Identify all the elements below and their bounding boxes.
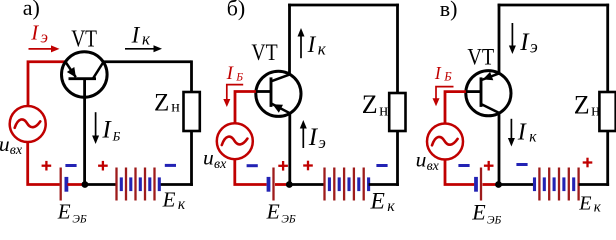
svg-text:вх: вх — [214, 157, 227, 172]
transistor VT3 base lead — [466, 90, 481, 93]
arrow I_E (red, right) — [29, 48, 54, 50]
svg-text:VT: VT — [251, 40, 277, 65]
svg-text:Б: Б — [235, 71, 243, 83]
plus sign E_K (a) — [98, 165, 108, 167]
plus sign E_EB (v) — [484, 165, 494, 167]
svg-text:Б: Б — [443, 70, 452, 84]
svg-text:н: н — [591, 101, 600, 120]
svg-text:u: u — [203, 146, 214, 170]
wire: Zn to bottom rail — [190, 131, 193, 186]
svg-text:вх: вх — [10, 143, 23, 158]
wire: top rail (v) — [498, 4, 609, 7]
svg-text:к: к — [529, 128, 537, 145]
battery E_EB long electrode (b) — [272, 168, 274, 201]
battery E_K cells (v) — [533, 177, 536, 191]
svg-text:к: к — [594, 200, 602, 216]
current label I_E up arrow (b) — [302, 127, 304, 149]
wire: right side down (v) — [606, 4, 609, 92]
plus sign E_EB — [42, 165, 52, 167]
wire: collector up (b) — [288, 4, 291, 75]
load Z_n box (a) — [184, 92, 200, 131]
wire: AC to rail (red, b) — [235, 159, 267, 185]
minus sign E_EB (b) — [247, 164, 258, 167]
svg-text:н: н — [171, 99, 180, 116]
svg-text:u: u — [416, 148, 427, 172]
current label I_K up arrow (b) — [300, 35, 302, 59]
minus sign E_EB — [65, 164, 76, 167]
wire: Zn to rail (v) — [606, 131, 609, 186]
wire: rail node to E_K (black, v) — [499, 183, 535, 186]
svg-text:I: I — [307, 32, 317, 57]
svg-text:I: I — [131, 23, 141, 48]
svg-text:Z: Z — [362, 90, 378, 119]
wire: rail right (black, b) — [369, 183, 399, 186]
svg-text:VT: VT — [71, 27, 97, 53]
wire: rail node to E_K (black) — [85, 183, 117, 186]
wire: base input (red, b) — [235, 92, 256, 125]
wire: rail E_EB to node (red, b) — [275, 183, 289, 186]
AC source G1 u_vx — [10, 106, 46, 142]
svg-text:к: к — [387, 198, 395, 215]
wire: collector to load (black) — [103, 60, 191, 63]
wire: emitter down (b) — [288, 113, 291, 184]
svg-text:э: э — [530, 36, 538, 56]
wire: rail node to E_K (black, b) — [289, 183, 324, 186]
svg-text:E: E — [578, 193, 591, 215]
wire: rail E_EB to node (red) — [67, 183, 85, 186]
svg-text:в): в) — [440, 0, 458, 21]
transistor VT2 emitter with arrow — [272, 104, 290, 114]
svg-text:н: н — [379, 100, 388, 119]
svg-text:I: I — [517, 119, 527, 145]
load Z_n box (b) — [389, 93, 405, 131]
AC source u_vx (b) — [217, 123, 253, 159]
svg-text:VT: VT — [467, 45, 494, 71]
transistor VT1 body — [62, 52, 108, 98]
transistor VT2 collector lead — [272, 74, 290, 81]
minus sign E_K (v) — [516, 163, 527, 166]
wire: AC to bottom rail (red) — [28, 142, 60, 185]
svg-text:к: к — [178, 196, 186, 213]
node: base junction — [82, 181, 89, 188]
current label I_K down arrow (v) — [510, 119, 512, 140]
wire: rail E_EB to node (red, v) — [483, 183, 499, 186]
load Z_n box (v) — [599, 92, 615, 131]
wire: input top (red) — [28, 62, 65, 107]
transistor VT1 base bar — [69, 77, 97, 80]
transistor VT3 body — [466, 71, 511, 116]
plus sign E_K (v) — [583, 161, 593, 163]
battery E_EB short electrode (b) — [267, 177, 271, 192]
svg-text:I: I — [30, 21, 39, 45]
svg-text:ЭБ: ЭБ — [281, 214, 296, 224]
wire: base lead down — [83, 79, 86, 185]
svg-text:E: E — [370, 189, 385, 215]
svg-text:Z: Z — [154, 90, 169, 117]
minus sign E_EB (v) — [458, 164, 469, 167]
svg-text:э: э — [318, 133, 326, 152]
svg-text:E: E — [266, 200, 280, 224]
node: collector junction (v) — [495, 181, 502, 188]
svg-text:Z: Z — [574, 90, 590, 119]
svg-text:б): б) — [227, 0, 246, 20]
arrow I_B bent (red, v) — [436, 87, 454, 100]
minus sign E_K (b) — [376, 164, 387, 167]
transistor VT3 emitter with arrow — [482, 73, 500, 80]
svg-text:ЭБ: ЭБ — [72, 213, 87, 224]
transistor VT3 collector lead — [482, 104, 500, 113]
transistor VT1 emitter with arrow — [65, 62, 75, 77]
battery E_EB short electrode (v) — [474, 177, 478, 192]
transistor VT1 collector lead — [93, 62, 103, 78]
battery E_EB long electrode (+) — [60, 168, 62, 201]
svg-text:u: u — [0, 132, 10, 156]
wire: emitter up (v) — [498, 4, 501, 74]
svg-text:E: E — [162, 188, 176, 212]
plus sign E_EB (b) — [278, 165, 288, 167]
wire: Zn to rail (b) — [396, 131, 399, 186]
transistor VT2 base bar — [270, 77, 273, 107]
svg-text:к: к — [318, 39, 327, 58]
wire: right drop to Zn — [190, 60, 193, 92]
battery E_EB short electrode (-) — [65, 177, 69, 192]
wire: AC to rail (red, v) — [445, 159, 474, 184]
transistor VT2 body — [256, 71, 301, 116]
wire: base input (red, v) — [445, 92, 466, 125]
battery E_EB long electrode (v) — [480, 168, 482, 201]
wire: right side down (b) — [396, 4, 399, 93]
svg-text:E: E — [471, 199, 486, 224]
current label I_E down arrow (v) — [511, 23, 513, 48]
battery E_K cells (b) — [323, 168, 325, 201]
svg-text:Б: Б — [112, 128, 121, 143]
svg-text:э: э — [41, 27, 49, 46]
plus sign E_K (b) — [303, 164, 313, 166]
svg-text:I: I — [434, 63, 442, 83]
wire: rail right (black, v) — [579, 183, 610, 186]
wire: collector down (v) — [498, 113, 501, 185]
node: emitter junction (b) — [286, 181, 293, 188]
arrow I_B bent (red, b) — [227, 85, 243, 100]
wire: top rail (b) — [288, 4, 399, 7]
svg-text:вх: вх — [427, 159, 440, 174]
svg-text:E: E — [57, 199, 71, 223]
transistor VT2 base lead — [256, 90, 271, 93]
svg-text:к: к — [142, 29, 151, 48]
minus sign E_K (a) — [165, 164, 176, 167]
transistor VT3 base bar — [480, 77, 483, 107]
battery E_K cells — [115, 168, 117, 201]
svg-text:ЭБ: ЭБ — [487, 215, 502, 225]
svg-text:а): а) — [23, 0, 40, 20]
wire: bottom rail right (black) — [159, 183, 193, 186]
AC source u_vx (v) — [427, 124, 463, 160]
current label I_B with down arrow — [95, 112, 97, 137]
